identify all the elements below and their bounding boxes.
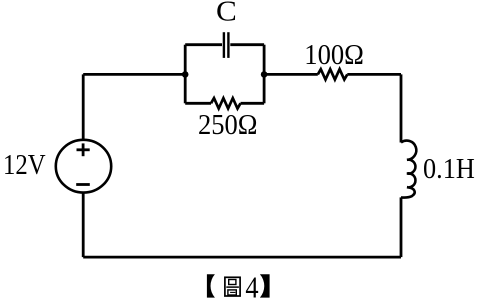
svg-text:12V: 12V: [3, 150, 46, 181]
svg-text:C: C: [216, 0, 237, 27]
svg-text:4: 4: [245, 269, 259, 304]
svg-text:100Ω: 100Ω: [304, 40, 364, 71]
svg-text:250Ω: 250Ω: [198, 110, 258, 141]
svg-text:0.1H: 0.1H: [423, 154, 475, 185]
